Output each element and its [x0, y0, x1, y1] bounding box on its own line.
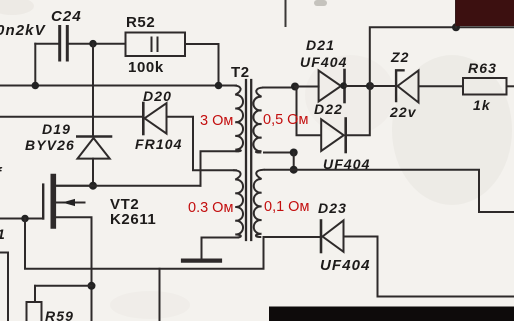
- wire: riser winding bottom to center rail: [293, 153, 295, 170]
- wire: D23 anode right, down x=377.5, right to edge y=296.5: [344, 237, 514, 297]
- svg-text:100k: 100k: [128, 59, 164, 76]
- scan smudge top middle: [314, 0, 327, 6]
- resistor R59 body (cut at bottom edge): [27, 302, 42, 321]
- svg-text:UF404: UF404: [320, 257, 371, 274]
- svg-text:T2: T2: [231, 64, 250, 81]
- wire: primary bottom y=151.5 to drain riser: [201, 151, 239, 185]
- wire: bottom-left corner piece: [0, 253, 8, 321]
- node: drain junction dot at (93,185.7): [89, 182, 97, 190]
- transformer T2: secondary bottom winding: [254, 170, 264, 237]
- svg-text:D20: D20: [143, 88, 172, 104]
- ground bar: [183, 259, 220, 263]
- svg-text:FR104: FR104: [135, 136, 183, 152]
- wire: secondary bottom winding bottom to D23: [264, 236, 320, 238]
- svg-text:UF404: UF404: [323, 156, 371, 172]
- wire: D20 line y=117.5 from left edge: [0, 116, 143, 118]
- svg-text:1: 1: [0, 226, 6, 242]
- svg-text:BYV26: BYV26: [25, 137, 75, 153]
- wire: D22 branch riser x=296.5 and feed y=135.2: [297, 88, 322, 135]
- svg-text:UF404: UF404: [300, 54, 348, 70]
- node: junction dot C24/R52/D19 at (93,43.7): [89, 40, 97, 48]
- node: junction dot at (35.3,85.5): [32, 82, 40, 90]
- svg-text:D19: D19: [42, 121, 71, 137]
- svg-text:0,1 Ом: 0,1 Ом: [264, 199, 309, 215]
- svg-text:1k: 1k: [473, 97, 491, 113]
- wire: secondary top winding top wire to D21 node: [263, 87, 295, 89]
- wire: main +rail y=85.5 from left edge to primary top: [0, 85, 236, 87]
- wire: D19 anode down to drain node: [92, 159, 94, 186]
- node: dot at (293.7,152.5): [290, 149, 298, 157]
- transformer T2: core lines: [246, 80, 251, 240]
- diode D22 triangle (pointing right): [321, 119, 344, 151]
- transistor VT2: drain tap: [55, 185, 93, 187]
- svg-text:22v: 22v: [389, 104, 417, 120]
- svg-text:f: f: [0, 165, 3, 182]
- wire: hidden continuation y=268.7 to riser x=263.5 up to D23 wire: [160, 237, 264, 269]
- wire: gate feed y=218.5 from left edge: [0, 218, 43, 220]
- transistor VT2: gate line: [42, 185, 44, 219]
- diode D23 triangle (pointing left): [323, 220, 344, 251]
- top-right erased block (dark underlying RGB): [456, 0, 514, 26]
- wire: stub x=456 to top edge: [455, 0, 457, 27]
- wire: gate-drive loop down x=25, right y=268.7, down x=159.5: [25, 219, 160, 321]
- svg-text:Z2: Z2: [390, 49, 410, 65]
- wire: aux winding bottom to ground: [202, 238, 239, 260]
- svg-text:3 Ом: 3 Ом: [200, 113, 233, 129]
- svg-text:C24: C24: [51, 8, 82, 25]
- transistor VT2: source tap then drop to bottom: [55, 217, 92, 321]
- wire: secondary top winding bottom wire y=152.5: [264, 152, 294, 154]
- svg-text:K2611: K2611: [110, 211, 156, 228]
- node: gate wire dot at (25,218.5): [21, 215, 29, 223]
- hidden ink: vertical stub at x=285.5 top: [285, 0, 287, 26]
- node: dot at (456,27.3): [452, 23, 460, 31]
- svg-text:0,5 Ом: 0,5 Ом: [263, 112, 308, 128]
- svg-text:D23: D23: [318, 200, 347, 216]
- bottom-right erased bar (dark underlying RGB): [269, 307, 514, 321]
- wire: riser x=369.8 up to top wire y=27.3 and top wire to right edge: [370, 27, 514, 86]
- diode D23 cathode bar (left): [320, 221, 323, 253]
- svg-text:R52: R52: [126, 14, 155, 31]
- transformer T2: primary top winding (bumps right), cusp x=235.3: [234, 86, 243, 152]
- transformer T2: secondary top winding (bumps left), cusp x=261.5: [253, 88, 263, 153]
- svg-text:R63: R63: [468, 60, 497, 76]
- node: dot at (370,86): [366, 82, 374, 90]
- diode D21 cathode bar: [343, 70, 346, 102]
- wire: left drop x=35.3 from C24 row to rail: [34, 44, 36, 86]
- node: blob at D21 cathode (343.4,85.5): [340, 82, 347, 89]
- diode D21 triangle (pointing right): [319, 71, 341, 102]
- node: dot at (295,86.5): [291, 83, 299, 91]
- transistor VT2: channel bar: [50, 177, 56, 227]
- capacitor C24 plates: [60, 27, 68, 61]
- transistor VT2: arrowhead pointing left: [62, 199, 75, 206]
- svg-text:D21: D21: [306, 37, 335, 53]
- resistor R63 body: [463, 78, 507, 95]
- diode D19 cathode bar: [77, 135, 111, 138]
- wire: node (370,86) to Z2: [370, 85, 395, 87]
- node: source/R59 junction dot at (91.5,285.8): [88, 282, 96, 290]
- diode D19 triangle (pointing up): [78, 138, 110, 159]
- wire: R63 right lead to edge: [507, 85, 514, 87]
- zener Z2 triangle (pointing left): [398, 71, 419, 103]
- transistor VT2: body arrow wire: [55, 202, 85, 204]
- svg-text:R59: R59: [45, 308, 74, 321]
- resistor R52 body: [126, 33, 186, 57]
- wire: D21 cathode to node (370,86): [345, 85, 370, 87]
- wire: R59 top lead: [34, 286, 36, 302]
- svg-text:0.3 Ом: 0.3 Ом: [188, 200, 233, 216]
- zener Z2 cathode bar with top hook: [396, 70, 403, 101]
- diode D20 triangle (pointing left): [145, 103, 167, 133]
- wire: D22 cathode right then riser up to node (370,86): [346, 86, 370, 135]
- node: junction dot at (218.5,85.5): [215, 82, 223, 90]
- wire: drain horizontal y=185.7: [56, 185, 201, 187]
- svg-text:D22: D22: [314, 101, 343, 117]
- wire: D20 anode right then down to aux winding top: [167, 117, 237, 171]
- diode D22 cathode bar: [344, 119, 347, 153]
- wire: C24/R52 row y=43.7: [35, 43, 58, 45]
- wire: center rail y=169.7 right to step at x=466 then to edge: [265, 170, 514, 212]
- node: dot at (293.7,169.7): [290, 166, 298, 174]
- R52 internal || marks: [151, 38, 153, 52]
- svg-text:0n2kV: 0n2kV: [0, 22, 47, 39]
- wire: clamp riser x=93 (C24 node down to D19 cathode bar): [92, 44, 94, 136]
- wire: D21 anode feed: [295, 86, 319, 88]
- transformer T2: aux (bottom-left) winding: [234, 170, 243, 237]
- wire: R59 branch y=285.8: [35, 285, 92, 287]
- wire: Z2 to R63: [419, 85, 464, 87]
- diode D20 cathode bar: [142, 103, 145, 134]
- wire: R52 right to rail drop x=218.5: [185, 44, 219, 86]
